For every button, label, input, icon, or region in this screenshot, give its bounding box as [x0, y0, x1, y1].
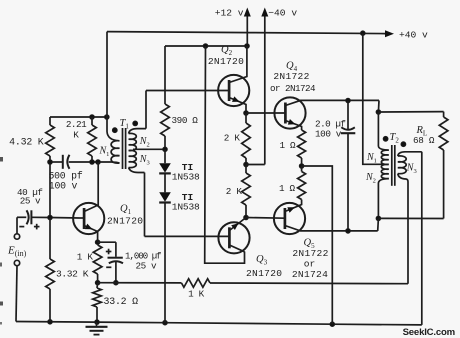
svg-text:2N1724: 2N1724 — [292, 269, 328, 280]
wire N2 bottom jog to Q5 collector — [377, 218, 380, 231]
svg-text:100 v: 100 v — [49, 181, 78, 192]
diode D1 TI 1N538 — [159, 163, 171, 173]
wire +12 rail to Q3 collector — [205, 46, 245, 263]
wire 500pf to T1 primary bottom — [69, 161, 112, 163]
node T1 center tap / 390 / diodes — [163, 147, 168, 152]
node C (Q3 emitter / Q5 base) — [244, 215, 249, 220]
T1 phasing dot right — [133, 121, 138, 126]
resistor 1K feedback — [182, 279, 211, 288]
wire scan edge artifact 4 — [0, 322, 2, 325]
wire bias top rail — [50, 116, 107, 118]
transistor Q1 — [73, 203, 104, 234]
node input / 4.32K bottom — [48, 215, 53, 220]
wire feedback right — [210, 282, 408, 285]
+12v supply arrow — [244, 8, 251, 47]
svg-text:3.32 K: 3.32 K — [56, 268, 89, 279]
label 1000uF polarity — [106, 249, 112, 268]
T1 center tap wire — [133, 148, 165, 150]
svg-text:2N1720: 2N1720 — [246, 268, 282, 279]
wire -40v jog — [246, 164, 265, 166]
transformer T1 core — [123, 128, 126, 169]
svg-text:−40 v: −40 v — [268, 7, 297, 18]
svg-text:or 2N1724: or 2N1724 — [270, 83, 316, 94]
Q2 emitter lead — [229, 96, 246, 113]
svg-text:+12 v: +12 v — [215, 7, 244, 18]
label -40v — [268, 7, 297, 18]
Q1 collector lead — [84, 162, 98, 212]
label T2 N2 — [365, 172, 376, 185]
svg-text:2.21: 2.21 — [66, 119, 87, 130]
svg-text:+40 v: +40 v — [399, 29, 428, 40]
Q3 collector lead — [229, 245, 244, 252]
wire T2 top to RL — [378, 111, 443, 113]
wire feedback left — [98, 282, 182, 284]
wire D2 to ground — [164, 203, 166, 323]
label Q1 — [120, 204, 132, 217]
node output midpoint — [299, 164, 304, 169]
wire 4.32K bottom to 500pf — [50, 161, 63, 163]
node T1 primary feed — [105, 115, 110, 120]
label E(in) — [7, 245, 27, 259]
T1 secondary bottom lead — [129, 168, 145, 237]
label Q5 type — [292, 248, 329, 280]
svg-text:100 v: 100 v — [315, 128, 342, 139]
svg-text:2 K: 2 K — [226, 186, 243, 197]
T1 phasing dot left — [112, 128, 117, 133]
svg-text:1 Ω: 1 Ω — [279, 183, 296, 194]
node Q1 collector junction — [96, 160, 101, 165]
transformer T1 primary N1 winding — [111, 141, 119, 163]
label input cap polarity — [19, 224, 39, 230]
node 4.32K/500pf/input divider — [48, 160, 53, 165]
wire node A to Q4 base — [246, 112, 285, 114]
wire +12v rail — [165, 45, 247, 47]
Q2 base wire — [146, 90, 229, 92]
wire Q4 collector corner to T2 — [377, 100, 380, 112]
T1 secondary top lead — [129, 91, 146, 134]
label 2K upper — [224, 133, 241, 144]
svg-text:33.2 Ω: 33.2 Ω — [104, 296, 139, 307]
resistor 1 ohm lower — [298, 166, 306, 203]
capacitor 500pf — [63, 155, 70, 169]
wire scan edge artifact 2 — [0, 263, 2, 267]
node A (Q2 emitter / Q4 base) — [244, 111, 249, 116]
T2 primary top lead — [378, 112, 388, 150]
svg-text:SeekIC.com: SeekIC.com — [403, 327, 455, 338]
transistor Q5 — [274, 203, 305, 234]
T2 N3 top lead — [398, 152, 422, 325]
label 3.32K — [56, 268, 89, 279]
svg-text:1N538: 1N538 — [172, 172, 200, 183]
label 40uF — [17, 187, 42, 207]
svg-text:25 v: 25 v — [20, 195, 41, 206]
label 1 ohm lower — [279, 183, 296, 194]
label Q3 — [256, 254, 268, 267]
Q5 emitter lead — [285, 203, 302, 213]
label Q5 — [304, 237, 316, 250]
transformer T2 core — [392, 145, 395, 186]
svg-text:390 Ω: 390 Ω — [172, 115, 199, 126]
resistor 3.32K — [46, 218, 55, 322]
label D2 — [172, 192, 200, 213]
node +40v rail to T2 tap junction — [361, 31, 366, 36]
resistor 2K lower — [242, 165, 251, 218]
node ground/diodes — [163, 320, 168, 325]
T1 primary bottom lead — [112, 161, 120, 164]
transformer T2 secondary N3 winding — [398, 156, 406, 174]
T2 phasing dot right — [401, 142, 406, 147]
node T2 N2 bottom / RL bottom — [376, 216, 381, 221]
node 1K bottom — [95, 280, 100, 285]
label T1 N1 — [99, 145, 110, 158]
label 1K emitter — [77, 251, 94, 262]
resistor 390 ohm — [161, 46, 170, 149]
transformer T1 secondary winding N2+N3 — [129, 133, 137, 167]
wire scan edge artifact 3 — [0, 302, 3, 306]
Q1 emitter lead — [84, 224, 98, 243]
label RL — [416, 125, 428, 138]
node rail B / 390-ohm — [203, 44, 208, 49]
input terminal E(in) top — [14, 217, 26, 239]
label Q2 — [221, 45, 233, 58]
node Q4 collector / cap — [346, 98, 351, 103]
label Q4 type — [270, 71, 316, 94]
wire Q1 emitter to 1000uF — [98, 242, 116, 257]
label Q4 — [286, 60, 298, 73]
node 2.21K top — [90, 115, 95, 120]
T2 primary bottom lead — [378, 179, 388, 219]
node ground/emitter return — [330, 322, 335, 327]
wire RL bottom — [378, 217, 443, 219]
label 4.32K — [9, 137, 44, 148]
label 1K feedback — [188, 289, 205, 300]
node 1000uF bottom — [114, 280, 119, 285]
wire bias divider to input node — [49, 162, 51, 218]
transistor Q4 — [274, 97, 305, 128]
wire scan edge artifact 1 — [0, 157, 3, 162]
wire +40 rail to T1 primary — [107, 32, 120, 141]
node ground/3.32K — [48, 320, 53, 325]
label Q1 type — [107, 215, 143, 226]
svg-text:1 K: 1 K — [188, 289, 205, 300]
resistor 2.21K — [88, 117, 97, 162]
svg-text:4.32 K: 4.32 K — [9, 137, 44, 148]
label +12v — [215, 7, 244, 18]
Q3 base wire — [145, 235, 230, 237]
label 500pf — [48, 170, 82, 191]
label T2 — [390, 132, 400, 145]
svg-text:2N1722: 2N1722 — [273, 71, 309, 82]
label 390 ohm — [172, 115, 199, 126]
capacitor 1000uF — [108, 258, 124, 283]
svg-text:25 v: 25 v — [136, 261, 158, 272]
label 33.2 ohm — [104, 296, 139, 307]
node rail B / Q2 collector — [245, 44, 250, 49]
capacitor 40uF input coupling — [27, 210, 32, 224]
watermark SeekIC.com — [403, 327, 455, 338]
wire midpoint to ground — [302, 166, 333, 324]
Q2 collector lead — [229, 46, 247, 83]
label RL value — [413, 135, 435, 146]
svg-text:2 K: 2 K — [224, 133, 241, 144]
svg-text:K: K — [73, 130, 79, 141]
wire center tap to D1 — [164, 149, 166, 163]
label T1 N3 — [139, 154, 150, 167]
wire +40v to T2 tap — [363, 33, 385, 164]
input terminal E(in) bottom — [14, 260, 19, 321]
node Q4 collector / T2 N1 / RL top — [376, 110, 381, 115]
label 2.21K — [66, 119, 87, 140]
resistor 2K upper — [242, 113, 251, 165]
label T2 N1 — [366, 152, 377, 165]
svg-text:2N1722: 2N1722 — [292, 248, 328, 259]
wire D1 to D2 — [164, 174, 166, 193]
wire ground rail — [16, 322, 422, 325]
ground symbol — [86, 322, 108, 335]
Q4 collector lead — [285, 100, 379, 105]
transistor Q2 — [218, 75, 249, 106]
+40v supply arrow and label — [385, 29, 428, 40]
node 2.21K bottom — [90, 160, 95, 165]
svg-text:2N1720: 2N1720 — [208, 56, 244, 67]
wire input cap to Q1 base — [31, 216, 79, 219]
resistor 33.2 ohm — [93, 283, 102, 323]
Q5 collector lead — [285, 226, 378, 231]
svg-text:1 K: 1 K — [77, 251, 94, 262]
label T1 N2 — [139, 136, 150, 149]
resistor 1K (Q1 emitter) — [93, 245, 102, 283]
capacitor 2.0uF — [341, 101, 356, 231]
svg-text:68 Ω: 68 Ω — [413, 135, 435, 146]
Q3 emitter lead — [229, 218, 246, 231]
label 2K lower — [226, 186, 243, 197]
svg-text:2N1720: 2N1720 — [107, 215, 143, 226]
transistor Q3 — [218, 222, 249, 253]
resistor 4.32K — [46, 117, 55, 162]
label Q2 type — [208, 56, 244, 67]
wire node C to Q5 base — [246, 217, 285, 220]
resistor RL 68 ohm — [439, 112, 448, 219]
label T1 — [120, 118, 130, 131]
svg-text:1 Ω: 1 Ω — [280, 140, 297, 151]
svg-text:or: or — [304, 258, 316, 269]
label D1 — [172, 162, 200, 183]
svg-text:1N538: 1N538 — [172, 202, 200, 213]
label T2 N3 — [406, 162, 417, 175]
T2 N3 bottom lead — [398, 174, 408, 284]
-40v supply arrow — [261, 8, 268, 165]
node cap bottom / Q5 collector wire — [346, 229, 351, 234]
label 1000uF — [125, 251, 161, 271]
resistor 1 ohm upper — [298, 130, 306, 166]
node B (-40v tie) — [244, 162, 249, 167]
T2 phasing dot left — [383, 136, 388, 141]
label 1 ohm upper — [280, 140, 297, 151]
label Q3 type — [246, 268, 282, 279]
node Q1 emitter — [95, 240, 100, 245]
label 2.0uF — [315, 119, 345, 140]
wire +40v rail (top) — [107, 32, 385, 34]
transformer T2 primary winding N1+N2 — [381, 150, 388, 179]
node ground/33.2 — [95, 320, 100, 325]
Q4 emitter lead — [285, 119, 301, 130]
diode D2 TI 1N538 — [159, 192, 171, 202]
